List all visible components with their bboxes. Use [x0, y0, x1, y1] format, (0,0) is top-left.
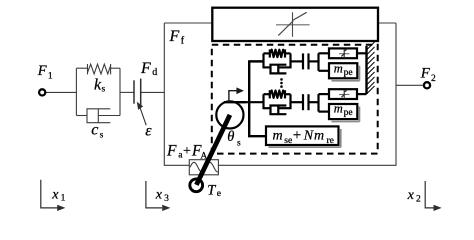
svg-text:1: 1 — [48, 71, 53, 81]
svg-text:T: T — [207, 183, 216, 199]
svg-text:+: + — [183, 144, 191, 159]
svg-text:2: 2 — [431, 74, 436, 84]
svg-text:m: m — [273, 128, 283, 143]
svg-text:c: c — [91, 122, 98, 139]
svg-text:m: m — [314, 128, 324, 143]
svg-text:θ: θ — [227, 129, 234, 145]
svg-text:F: F — [37, 63, 47, 79]
svg-text:x: x — [155, 187, 163, 202]
svg-text:m: m — [334, 61, 343, 75]
svg-text:F: F — [166, 143, 177, 160]
svg-text:pe: pe — [344, 68, 353, 78]
svg-text:pe: pe — [344, 108, 353, 118]
svg-text:e: e — [217, 189, 221, 199]
svg-text:3: 3 — [164, 194, 169, 204]
svg-text:re: re — [327, 136, 334, 146]
svg-text:d: d — [152, 67, 157, 78]
svg-text:F: F — [140, 60, 151, 77]
svg-text:s: s — [102, 84, 106, 94]
svg-text:m: m — [334, 101, 343, 115]
svg-text:2: 2 — [416, 195, 421, 205]
svg-text:se: se — [284, 136, 292, 146]
svg-text:x: x — [51, 187, 59, 202]
svg-text:+: + — [293, 127, 301, 143]
svg-text:x: x — [407, 188, 415, 203]
svg-text:s: s — [100, 131, 104, 141]
svg-text:A: A — [200, 152, 207, 162]
svg-text:N: N — [303, 128, 314, 143]
svg-text:1: 1 — [61, 194, 66, 204]
svg-text:ε: ε — [145, 123, 152, 140]
svg-text:F: F — [169, 28, 180, 45]
svg-text:s: s — [237, 139, 241, 149]
svg-text:F: F — [420, 66, 431, 82]
